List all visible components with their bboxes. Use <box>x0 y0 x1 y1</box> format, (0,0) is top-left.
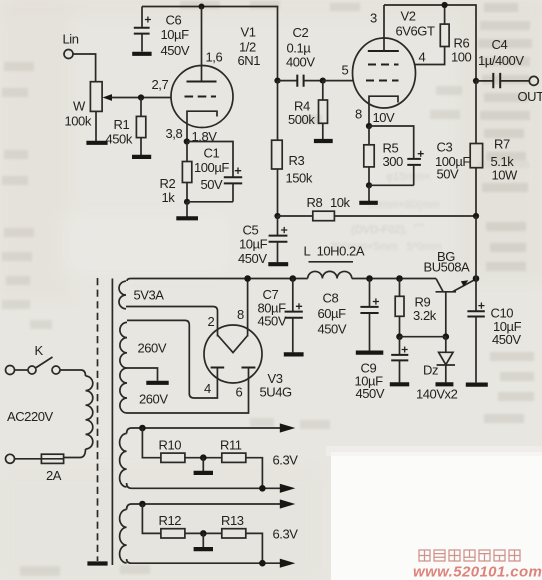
pin 2 label <box>208 314 215 329</box>
resistor R1 450k <box>106 98 146 156</box>
svg-text:6N1: 6N1 <box>238 53 261 68</box>
svg-text:6.3V: 6.3V <box>273 527 299 542</box>
node R8 right junction <box>473 213 479 219</box>
capacitor C9 10uF 450V <box>355 337 409 401</box>
wire heater2 top lead <box>127 504 281 510</box>
node heater2 top junction <box>139 501 146 508</box>
node OUT terminal <box>518 76 542 104</box>
svg-text:φ15mm×: φ15mm× <box>386 171 430 183</box>
node Lin terminal <box>63 32 79 59</box>
V2 cathode <box>369 96 398 126</box>
node R2 bottom junction <box>184 199 190 205</box>
6.3V label upper <box>273 453 299 468</box>
svg-text:OUT: OUT <box>518 89 542 104</box>
fuse 2A <box>15 454 64 483</box>
resistor R6 100 <box>440 5 471 65</box>
node heater1 top junction <box>139 425 146 432</box>
svg-text:4: 4 <box>419 50 426 65</box>
svg-text:1µ/400V: 1µ/400V <box>478 53 524 68</box>
op tube V1 6N1 envelope <box>171 25 260 128</box>
svg-text:R7: R7 <box>494 137 510 152</box>
wire primary bottom to fuse <box>64 449 86 458</box>
wire C3 bottom to R5 bottom <box>369 184 414 186</box>
node R9 top junction <box>396 275 403 282</box>
svg-text:Lin: Lin <box>63 32 79 47</box>
node hum centre 2 <box>200 530 207 537</box>
V3 right anode (pin 6) <box>236 368 256 400</box>
heater2 top arrow <box>280 499 296 508</box>
node R5 bottom junction <box>366 182 372 188</box>
resistor R5 300 <box>364 126 403 185</box>
ground (Dz) <box>436 382 454 386</box>
node B+ output junction <box>473 275 480 282</box>
svg-text:60µF: 60µF <box>318 306 347 321</box>
V2 control grid (dashed) <box>366 80 399 82</box>
wire 260V top to V3 left anode <box>127 320 217 398</box>
wire 260V bottom to V3 right anode <box>127 368 249 414</box>
heater2 bottom arrow <box>280 559 296 568</box>
watermark <box>413 550 542 580</box>
svg-text:00mm×80(mm: 00mm×80(mm <box>368 199 439 211</box>
resistor R8 10k <box>278 195 477 221</box>
wire filament right leg (pin 8) <box>237 279 248 337</box>
capacitor C6 <box>134 7 190 59</box>
wire centre tap to ground <box>127 368 158 381</box>
V2 anode <box>368 50 399 52</box>
wire heater2 bottom lead <box>127 559 281 563</box>
zener Dz 140Vx2 <box>416 337 458 402</box>
ground (C10) <box>466 383 488 387</box>
V3 left anode (pin 4) <box>204 368 224 397</box>
svg-text:2A: 2A <box>46 468 62 483</box>
svg-text:3: 3 <box>370 11 377 26</box>
svg-text:C1: C1 <box>204 146 220 161</box>
winding 6.3V upper <box>120 434 127 487</box>
svg-text:10k: 10k <box>330 195 351 210</box>
winding 5V3A <box>119 281 164 309</box>
resistor R4 500k <box>288 81 328 140</box>
resistor R9 3.2k <box>395 279 437 337</box>
node hum centre 1 <box>200 454 207 461</box>
svg-text:100: 100 <box>451 50 472 65</box>
wire heater1 bottom lead <box>127 483 281 488</box>
svg-text:R1: R1 <box>114 117 130 132</box>
ground (C9) <box>390 382 409 386</box>
svg-text:450V: 450V <box>356 386 385 401</box>
wire hum pot row 1 <box>142 428 262 488</box>
svg-text:100k: 100k <box>65 114 92 129</box>
svg-text:450V: 450V <box>258 314 287 329</box>
svg-text:450V: 450V <box>238 251 267 266</box>
ground (centre tap) <box>146 381 168 385</box>
capacitor C1 100uF <box>194 146 242 202</box>
svg-text:R8: R8 <box>307 195 323 210</box>
svg-text:R13: R13 <box>221 513 244 528</box>
svg-text:1,6: 1,6 <box>206 50 223 65</box>
capacitor C8 60uF 450V <box>318 279 380 351</box>
inductor L 10H0.2A <box>304 244 365 279</box>
svg-text:C4: C4 <box>492 37 508 52</box>
resistor R12 <box>159 513 185 538</box>
svg-text:(DVD-F02), ⌒: (DVD-F02), ⌒ <box>342 223 425 236</box>
svg-text:5V3A: 5V3A <box>134 288 165 303</box>
svg-text:10µF: 10µF <box>239 237 268 252</box>
svg-text:500k: 500k <box>288 112 315 127</box>
svg-text:400V: 400V <box>286 55 315 70</box>
svg-text:260V: 260V <box>138 341 167 356</box>
wire to ground <box>186 202 188 217</box>
V1 anode <box>187 81 217 83</box>
svg-text:R10: R10 <box>159 438 182 453</box>
capacitor C3 100uF 50V <box>369 126 470 185</box>
svg-text:6: 6 <box>236 385 243 400</box>
transformer core (dashed) <box>97 278 99 561</box>
wire screen pin 4 to R6 <box>414 47 444 65</box>
svg-text:Dz: Dz <box>423 363 438 378</box>
wire V2 plate lead and top rail <box>370 5 476 81</box>
svg-text:5: 5 <box>342 63 349 78</box>
node heater1 right junction <box>259 485 266 492</box>
V1 cathode <box>187 111 217 141</box>
svg-text:8: 8 <box>355 107 362 122</box>
node C2 right / R4 junction <box>320 78 326 84</box>
svg-text:4: 4 <box>204 381 211 396</box>
wire main B+ line <box>127 279 436 282</box>
svg-text:C3: C3 <box>437 140 453 155</box>
svg-text:450V: 450V <box>318 322 347 337</box>
node V1 cathode junction <box>184 129 218 145</box>
node mains terminal lower <box>6 454 15 463</box>
capacitor C5 10uF 450V <box>238 216 287 266</box>
svg-text:3,8: 3,8 <box>166 126 183 141</box>
resistor R10 <box>159 438 185 463</box>
svg-text:R2: R2 <box>160 176 176 191</box>
potentiometer W1 100k <box>65 82 113 129</box>
transistor BG BU508A <box>424 249 477 337</box>
svg-text:0.1µ: 0.1µ <box>287 41 312 56</box>
wire C1 bottom to R2 bottom <box>187 201 233 203</box>
svg-text:W: W <box>73 99 86 114</box>
svg-text:100µF: 100µF <box>194 160 229 175</box>
svg-text:140Vx2: 140Vx2 <box>416 387 458 402</box>
ground (R5/C3) <box>359 201 378 205</box>
resistor R3 150k <box>272 81 313 216</box>
node base/zener junction <box>443 333 450 340</box>
V1 grid (dashed) <box>185 96 217 98</box>
ground (core bottom bar) <box>87 561 107 565</box>
capacitor C7 80uF 450V <box>258 279 303 353</box>
node R8 left junction <box>274 213 280 219</box>
wire wiper to V1 grid <box>112 97 172 99</box>
wire switch to primary <box>60 370 86 376</box>
transformer primary winding <box>86 376 93 449</box>
heater1 bottom arrow <box>280 484 296 493</box>
shield line <box>111 279 113 566</box>
wire top rail (V1 plate rail) <box>142 7 278 81</box>
resistor R11 <box>220 438 246 463</box>
svg-text:C5: C5 <box>243 223 259 238</box>
node C8 junction <box>366 275 373 282</box>
heater1 top arrow <box>280 423 296 432</box>
svg-text:6.3V: 6.3V <box>273 453 299 468</box>
ground (R2/C1) <box>176 216 198 220</box>
svg-text:150k: 150k <box>286 171 313 186</box>
node V2 cathode junction <box>366 110 395 129</box>
svg-text:5U4G: 5U4G <box>260 385 292 400</box>
wire hum pot row 2 <box>142 504 262 563</box>
winding 260V lower <box>120 368 168 413</box>
svg-text:2,7: 2,7 <box>152 77 169 92</box>
svg-text:C8: C8 <box>323 291 339 306</box>
resistor R7 5.1k 10W <box>470 81 518 216</box>
ground (C5) <box>268 262 288 266</box>
svg-text:L 10H0.2A: L 10H0.2A <box>304 244 365 259</box>
wire R9 bottom to zener <box>400 336 446 338</box>
capacitor C10 10uF 450V <box>467 279 521 383</box>
capacitor C4 1u/400V <box>476 37 529 88</box>
node plate-rail junction <box>199 4 205 10</box>
wire centre 1 to ground <box>202 458 204 471</box>
resistor R2 1k <box>160 142 192 206</box>
AC220V label <box>7 409 53 424</box>
svg-text:K: K <box>35 343 44 358</box>
node C2 left junction <box>274 78 280 84</box>
node C7 junction <box>290 275 297 282</box>
svg-text:450V: 450V <box>492 332 521 347</box>
ground (C8) <box>356 351 384 355</box>
ground (C6) <box>132 52 151 56</box>
switch K <box>15 343 61 374</box>
svg-text:10V: 10V <box>373 110 396 125</box>
svg-text:R12: R12 <box>159 513 182 528</box>
node R9 bottom junction <box>396 333 403 340</box>
svg-text:C6: C6 <box>166 13 182 28</box>
V2 screen grid (dashed) <box>368 64 399 66</box>
tube V2 6V6GT envelope <box>353 9 435 109</box>
wire centre 2 to ground <box>202 533 204 547</box>
svg-text:V1: V1 <box>241 25 256 40</box>
wire to ground <box>368 185 370 201</box>
wire 5V3A bottom to pin 2 <box>126 307 218 337</box>
svg-text:260V: 260V <box>139 392 168 407</box>
svg-text:8: 8 <box>237 307 244 322</box>
node heater2 right junction <box>259 560 266 567</box>
ground (hum centre 2) <box>194 547 213 551</box>
V3 filament <box>218 335 248 353</box>
capacitor C2 0.1u 400V <box>278 25 323 87</box>
ground (pot W) <box>86 141 107 145</box>
node mains terminal upper <box>6 366 15 375</box>
pin 3,8 label <box>166 126 183 141</box>
wire V1 plate lead <box>201 7 203 82</box>
svg-text:2: 2 <box>208 314 215 329</box>
ground (R4) <box>314 139 333 143</box>
ground (R1) <box>132 155 151 159</box>
svg-text:50V: 50V <box>437 167 460 182</box>
svg-text:V2: V2 <box>401 9 416 24</box>
node OUT coupling junction <box>473 78 479 84</box>
wire heater1 top lead <box>127 428 281 434</box>
svg-text:3.2k: 3.2k <box>413 308 437 323</box>
svg-text:R11: R11 <box>220 438 242 453</box>
svg-text:50V: 50V <box>201 177 224 192</box>
svg-text:www.520101.com: www.520101.com <box>413 564 542 580</box>
wire to V2 grid pin 5 <box>323 63 353 81</box>
svg-text:R6: R6 <box>454 36 470 51</box>
svg-text:1k: 1k <box>162 190 176 205</box>
svg-text:R3: R3 <box>289 153 305 168</box>
wire cathode to C1 <box>187 142 233 178</box>
winding 260V upper <box>120 322 167 368</box>
ground (C7) <box>284 352 304 356</box>
svg-text:300: 300 <box>383 154 404 169</box>
svg-text:AC220V: AC220V <box>7 409 53 424</box>
svg-text:450V: 450V <box>161 43 190 58</box>
tube V3 5U4G envelope <box>204 325 292 400</box>
white patch behind watermark <box>331 452 542 580</box>
svg-text:BU508A: BU508A <box>424 260 470 275</box>
wire pot bottom lead <box>95 111 97 141</box>
svg-text:450k: 450k <box>106 132 133 147</box>
pin 2,7 label <box>152 77 169 92</box>
svg-text:C2: C2 <box>293 25 309 40</box>
node pin8/B+ junction <box>244 275 251 282</box>
svg-text:10µF: 10µF <box>161 27 190 42</box>
svg-text:6V6GT: 6V6GT <box>396 24 435 39</box>
winding 6.3V lower <box>120 510 127 563</box>
node wiper/R1 junction <box>138 94 144 100</box>
wire B+ output vertical <box>475 216 477 279</box>
node rail/R6 junction <box>442 2 448 8</box>
wire input to potentiometer <box>73 54 96 82</box>
6.3V label lower <box>273 527 299 542</box>
resistor R13 <box>221 513 246 538</box>
pin 8 label <box>355 107 362 122</box>
ground (hum centre 1) <box>194 471 213 475</box>
svg-text:10W: 10W <box>492 168 519 183</box>
